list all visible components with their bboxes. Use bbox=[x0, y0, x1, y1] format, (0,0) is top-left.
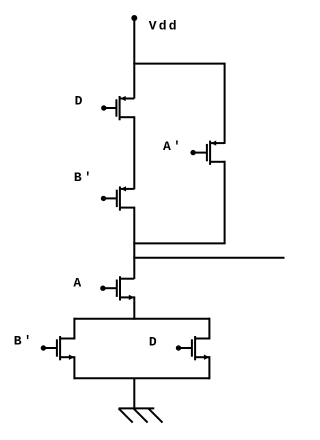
wire Vdd down to M1 source lead bbox=[133, 18, 135, 99]
wire top rail of parallel pair bbox=[74, 318, 209, 320]
svg-text:A': A' bbox=[163, 139, 183, 154]
transistor M1 PMOS gate D bbox=[101, 96, 134, 120]
wire bottom rail to ground bbox=[133, 378, 135, 408]
wire right rail down to M3 source bbox=[224, 63, 226, 144]
svg-text:A: A bbox=[73, 275, 83, 290]
wire M2 drain down to M4 drain bbox=[133, 207, 135, 279]
node Vdd dot bbox=[131, 15, 137, 21]
svg-text:B': B' bbox=[14, 333, 34, 348]
wire M5 source down to bottom rail bbox=[73, 356, 75, 379]
svg-text:Vdd: Vdd bbox=[149, 19, 179, 34]
wire M1 drain to M2 source bbox=[133, 116, 135, 189]
wire junction horizontal (M3 drain to main node) bbox=[133, 242, 225, 244]
transistor M2 PMOS gate B' bbox=[101, 186, 135, 210]
wire Vdd branch to right rail bbox=[133, 63, 224, 65]
wire top rail down to M6 drain bbox=[208, 318, 210, 340]
transistor M3 PMOS gate A' bbox=[190, 141, 224, 165]
wire top rail down to M5 drain bbox=[73, 318, 75, 340]
transistor M6 NMOS gate D bbox=[176, 336, 210, 360]
transistor M5 NMOS gate B' bbox=[41, 336, 75, 360]
svg-text:D: D bbox=[149, 334, 159, 349]
svg-text:B': B' bbox=[74, 170, 94, 185]
wire M3 drain down to junction bbox=[224, 161, 226, 244]
svg-text:D: D bbox=[75, 94, 85, 109]
wire output node Y bbox=[133, 257, 284, 259]
transistor M4 NMOS gate A bbox=[100, 276, 134, 300]
ground symbol bbox=[119, 408, 163, 422]
wire bottom rail of parallel pair bbox=[74, 377, 209, 379]
wire M4 source down to parallel block top rail bbox=[133, 296, 135, 319]
wire M6 source down to bottom rail bbox=[208, 356, 210, 379]
